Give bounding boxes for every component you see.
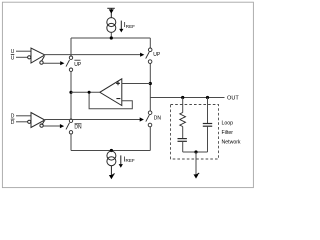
- op-amp plus sign: [116, 81, 120, 85]
- resistor R1: [180, 113, 186, 127]
- wire buffer D output to switch DN: [45, 119, 141, 121]
- wire OUT to resistor R1: [182, 98, 184, 113]
- left rail wire mid: [70, 71, 72, 119]
- wire + input to right rail: [122, 83, 151, 85]
- junction node bottom rail: [110, 149, 113, 152]
- junction node filter bottom: [194, 150, 197, 153]
- left rail wire lower: [70, 134, 72, 151]
- buffer A2 (D): [28, 113, 45, 128]
- capacitor C2: [203, 124, 212, 127]
- svg-text:D: D: [11, 120, 15, 126]
- feedback wire output to - input: [89, 92, 132, 108]
- op-amp minus sign: [116, 98, 120, 100]
- top rail wire: [71, 37, 150, 39]
- svg-text:DN: DN: [74, 125, 82, 131]
- switch UPbar S1: [66, 56, 73, 71]
- buffer A1 (U): [28, 48, 45, 64]
- wire buffer U inverted output to switch UPbar: [43, 62, 61, 64]
- wire buffer D inverted output to switch DNbar: [43, 125, 61, 127]
- bottom supply arrowhead: [109, 175, 114, 179]
- filter supply arrowhead: [194, 174, 199, 178]
- svg-text:UP: UP: [74, 62, 82, 68]
- junction node capacitor branch: [206, 96, 209, 99]
- right rail wire lower: [149, 127, 151, 151]
- svg-text:REF: REF: [126, 158, 135, 163]
- current source I1 (top): [107, 18, 116, 33]
- wire Ubar input: [16, 56, 28, 58]
- current source I2 (bottom): [107, 151, 116, 166]
- junction node + input: [149, 82, 152, 85]
- wire C1 to filter bottom: [182, 141, 184, 152]
- svg-text:Filter: Filter: [222, 130, 234, 136]
- svg-text:Loop: Loop: [222, 121, 234, 127]
- junction node resistor branch: [181, 96, 184, 99]
- outer border frame (decorative): [2, 2, 253, 187]
- right rail wire mid: [149, 64, 151, 111]
- junction node at top rail: [110, 36, 113, 39]
- svg-text:UP: UP: [153, 52, 161, 58]
- switch DNbar S3: [66, 119, 73, 134]
- capacitor C1: [178, 139, 187, 142]
- wire current source to top rail: [110, 32, 112, 38]
- op-amp U1 (voltage follower): [100, 79, 122, 106]
- bottom rail wire: [71, 150, 150, 152]
- wire C2 to filter bottom: [207, 126, 209, 152]
- wire to negative supply: [110, 166, 112, 176]
- top supply stub bar: [107, 8, 115, 17]
- switch UP S2: [146, 48, 152, 63]
- IREF arrow (top): [120, 21, 122, 29]
- filter bottom wire: [183, 151, 208, 153]
- left rail wire upper: [70, 38, 72, 56]
- wire D input: [16, 115, 31, 117]
- switch DN S4: [146, 111, 152, 127]
- svg-text:REF: REF: [126, 24, 135, 29]
- wire Dbar input: [16, 121, 28, 123]
- wire filter to negative supply: [195, 152, 197, 175]
- svg-text:OUT: OUT: [227, 96, 239, 102]
- IREF arrow (bottom): [120, 155, 122, 164]
- junction node feedback: [88, 91, 91, 94]
- svg-text:U: U: [11, 55, 15, 61]
- svg-text:Network: Network: [222, 139, 241, 145]
- wire U input: [16, 50, 31, 52]
- loop filter dashed box: [171, 105, 219, 160]
- right rail wire upper: [149, 38, 151, 48]
- wire R1 to C1: [182, 127, 184, 139]
- wire buffer U output to switch UP: [45, 54, 142, 56]
- OUT wire: [150, 97, 224, 99]
- junction node opamp output: [69, 91, 72, 94]
- wire op-amp output to left rail: [71, 91, 100, 93]
- top supply arrowhead: [109, 9, 114, 13]
- wire OUT to capacitor C2: [207, 98, 209, 124]
- svg-text:DN: DN: [154, 116, 162, 122]
